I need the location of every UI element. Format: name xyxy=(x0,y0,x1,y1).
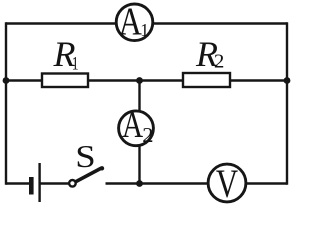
svg-text:2: 2 xyxy=(214,51,224,72)
svg-text:2: 2 xyxy=(142,122,153,146)
svg-text:A: A xyxy=(122,106,143,146)
svg-text:A: A xyxy=(119,0,142,43)
svg-text:1: 1 xyxy=(140,20,149,40)
svg-text:V: V xyxy=(216,161,238,206)
svg-text:1: 1 xyxy=(72,52,79,74)
svg-text:S: S xyxy=(75,139,95,174)
